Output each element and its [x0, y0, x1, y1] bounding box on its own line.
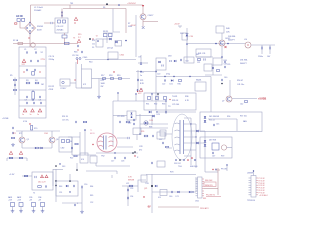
- short stub x227: [226, 164, 227, 171]
- junction dots output rail: [215, 43, 229, 45]
- diode D72: [189, 191, 194, 193]
- label TB1 top: [70, 3, 73, 5]
- svg-text:R16: R16: [74, 52, 77, 54]
- vertical to ground boxB: [81, 188, 83, 210]
- svg-text:C2: C2: [34, 49, 36, 51]
- capacitor C10: [32, 100, 35, 105]
- svg-text:R30: R30: [178, 84, 181, 86]
- comps row above T1: [117, 116, 130, 123]
- label R1 R2 470K: [49, 86, 56, 91]
- choke winding bars upper: [61, 12, 62, 17]
- svg-text:C9: C9: [39, 100, 41, 102]
- node star mark: [113, 71, 114, 72]
- svg-text:C20: C20: [157, 74, 160, 76]
- svg-text:C35: C35: [227, 64, 230, 66]
- svg-text:EE19: EE19: [90, 133, 95, 135]
- standby cluster IC10: [23, 121, 27, 123]
- capacitor C18: [121, 157, 126, 163]
- T1 bottom label: [101, 156, 105, 158]
- PWM cluster box: [127, 111, 136, 125]
- stub ticks above PWM: [117, 92, 159, 101]
- svg-text:R36: R36: [185, 96, 188, 98]
- wire y166: [96, 163, 130, 166]
- thermistor NTC1: [65, 42, 70, 44]
- label R21: [140, 80, 145, 85]
- thermistor circle: [31, 43, 35, 47]
- supervisor U5 body: [251, 176, 256, 198]
- diode D21: [170, 79, 174, 85]
- vertical wire x136 long: [135, 15, 137, 57]
- comps below 5vsb wire: [240, 101, 248, 106]
- capacitor CX1: [44, 22, 55, 24]
- capacitor C22: [162, 79, 166, 85]
- protection right texts2: [185, 96, 190, 102]
- label D30 SBL: [228, 36, 236, 42]
- stubs neg rails: [7, 158, 27, 161]
- svg-text:D25: D25: [150, 120, 153, 122]
- wire rail to choke: [61, 9, 63, 19]
- svg-text:SBL2040: SBL2040: [190, 166, 197, 168]
- PWM top wire: [113, 100, 167, 102]
- capacitor C4: [37, 60, 38, 62]
- connector P2: [17, 196, 23, 213]
- svg-text:C53: C53: [130, 188, 133, 190]
- wire standby mid bus: [16, 130, 60, 132]
- svg-text:235X-ATX: 235X-ATX: [200, 207, 209, 210]
- svg-text:R70: R70: [34, 128, 37, 130]
- marks ps-on node: [212, 169, 216, 170]
- wire y192: [152, 191, 196, 193]
- svg-text:R65: R65: [90, 195, 93, 197]
- fan cap C45: [213, 124, 219, 127]
- svg-text:C42: C42: [240, 104, 243, 106]
- optocoupler PC1: [60, 79, 70, 90]
- capacitor C17: [111, 157, 116, 163]
- capacitor C60: [169, 191, 173, 198]
- svg-text:R10: R10: [89, 62, 92, 64]
- connector P1: [8, 196, 15, 213]
- svg-text:R35 1K: R35 1K: [172, 100, 179, 102]
- ground G2: [80, 210, 84, 213]
- wire y57 lower: [196, 54, 213, 57]
- warning triangle hot: [74, 17, 77, 23]
- vertical wire right x138: [137, 70, 139, 92]
- wire stub y33: [103, 32, 113, 34]
- svg-text:R43: R43: [224, 60, 227, 62]
- label R12 100K: [101, 80, 106, 88]
- comps below protection box: [149, 111, 196, 113]
- svg-text:F1 5A: F1 5A: [13, 39, 19, 42]
- lower box 213: [213, 58, 227, 66]
- svg-text:C47: C47: [212, 156, 215, 158]
- svg-text:1n: 1n: [22, 114, 24, 116]
- wire top bottom-mid: [86, 171, 117, 174]
- label in fan box: [240, 116, 247, 118]
- resistor R17: [101, 75, 106, 79]
- svg-text:1n: 1n: [140, 75, 142, 77]
- monitor lamp circle: [221, 145, 232, 150]
- boxB lower marks: [59, 191, 71, 194]
- warning triangle W1: [9, 151, 12, 154]
- labels right 5vsb: [237, 80, 244, 86]
- svg-text:Q3 Q4: Q3 Q4: [107, 48, 114, 50]
- boxB contents: [59, 180, 75, 188]
- vertical right x211: [210, 77, 212, 113]
- wire left T3 y128: [140, 127, 168, 129]
- capacitor C3: [30, 60, 31, 62]
- tick x112: [111, 175, 113, 178]
- svg-text:TB1: TB1: [70, 3, 73, 5]
- svg-text:R42: R42: [196, 54, 199, 56]
- standby box content: [29, 123, 37, 130]
- dark nodes mid left: [55, 163, 65, 168]
- magamp wire: [122, 183, 138, 187]
- svg-text:R22: R22: [70, 158, 73, 160]
- aux comps right: [197, 58, 205, 64]
- svg-text:D21: D21: [170, 84, 173, 86]
- cap right of boxB: [81, 184, 87, 188]
- red marks bottom: [203, 198, 206, 200]
- wire y203: [62, 203, 82, 206]
- svg-text:R18: R18: [109, 75, 112, 77]
- transformer T3 main: [172, 114, 192, 160]
- svg-text:+5VSB: +5VSB: [258, 97, 266, 101]
- junction top rail 1: [106, 3, 108, 5]
- box IC4: [80, 153, 88, 163]
- wire Q1 emitter: [143, 20, 158, 27]
- wire to ground: [92, 78, 100, 80]
- svg-text:2W: 2W: [101, 86, 104, 88]
- wire AC live to bridge: [20, 22, 24, 29]
- svg-text:D30 SBL: D30 SBL: [228, 36, 236, 38]
- boxA red text: [38, 182, 46, 184]
- snubber cluster below Q2: [72, 45, 83, 57]
- transistor Q1 degauss: [140, 14, 154, 20]
- svg-text:C17: C17: [111, 161, 114, 163]
- box small2: [90, 156, 97, 163]
- wires right of T1: [117, 133, 141, 147]
- label C3 C4 2200p: [49, 56, 56, 61]
- svg-text:R60 10K: R60 10K: [205, 180, 213, 182]
- svg-text:C27: C27: [159, 139, 162, 141]
- label L1 2.2mH: [34, 7, 43, 12]
- labels right boxB: [90, 186, 93, 204]
- svg-text:+310V: +310V: [130, 25, 136, 27]
- label +310VDC: [127, 3, 137, 5]
- wire 5vsb out: [232, 98, 257, 100]
- svg-text:C7: C7: [25, 100, 27, 102]
- long vertical x156: [155, 70, 157, 110]
- fan box texts: [209, 116, 219, 122]
- box right of T1: [133, 128, 141, 140]
- svg-text:C22: C22: [162, 84, 165, 86]
- svg-text:D23: D23: [157, 114, 160, 116]
- svg-text:R59: R59: [221, 156, 224, 158]
- label R6 mid rail: [103, 7, 105, 9]
- box IC6: [158, 190, 167, 200]
- ground standby left: [11, 143, 15, 146]
- svg-text:C18: C18: [121, 161, 124, 163]
- fan wire: [208, 116, 237, 131]
- component below choke: [62, 33, 67, 44]
- svg-text:C15 R20: C15 R20: [117, 116, 124, 118]
- PWM lower wire: [140, 123, 168, 125]
- svg-text:TR2: TR2: [101, 156, 105, 158]
- resistor R19: [117, 75, 122, 79]
- box 7905: [204, 64, 212, 71]
- svg-text:CX 0.22: CX 0.22: [57, 26, 64, 28]
- wire neg rails: [7, 157, 27, 159]
- svg-text:C21: C21: [197, 62, 200, 64]
- svg-text:C30: C30: [190, 36, 193, 38]
- warning triangle drive: [73, 38, 81, 43]
- svg-text:+3.3V ADJ: +3.3V ADJ: [259, 194, 268, 197]
- svg-text:C28: C28: [139, 146, 142, 148]
- svg-text:R32: R32: [154, 104, 157, 106]
- connector J1 AC inlet: [16, 15, 25, 21]
- svg-text:L1 2.2mH: L1 2.2mH: [34, 7, 43, 9]
- fuse F1: [15, 23, 17, 24]
- left resistor column: [10, 75, 17, 95]
- label Q3 Q4: [107, 48, 114, 50]
- PWM row wire: [113, 115, 152, 117]
- driver lower box: [108, 52, 124, 59]
- svg-text:C11: C11: [92, 44, 95, 46]
- labels C28: [139, 146, 142, 152]
- red wire -5V: [158, 206, 199, 208]
- wire cluster left of T1: [68, 137, 80, 155]
- svg-text:T2: T2: [96, 36, 98, 38]
- CN1 label: [195, 201, 199, 203]
- PS-ON tick label: [216, 169, 228, 171]
- protection right texts: [169, 96, 179, 106]
- diode D1 cross mark: [142, 26, 145, 29]
- small box left: [141, 175, 147, 182]
- wire y75 right: [205, 74, 222, 76]
- svg-text:R13: R13: [92, 40, 95, 42]
- boxA lower comps: [38, 185, 47, 187]
- svg-text:600V: 600V: [37, 30, 42, 32]
- rectifier labels right: [190, 157, 197, 168]
- svg-text:D45 1N4148: D45 1N4148: [209, 116, 219, 118]
- monitor dual diode: [204, 140, 206, 146]
- driver box: [115, 41, 122, 47]
- resistor R66: [9, 157, 12, 159]
- small box 196 49: [196, 49, 211, 57]
- svg-text:D5: D5: [92, 47, 94, 49]
- aux box1: [156, 58, 166, 70]
- tick into boxB: [69, 174, 71, 181]
- svg-text:C945: C945: [44, 133, 48, 135]
- capacitor C32: [258, 45, 263, 58]
- wire drop to Q1: [142, 5, 144, 14]
- svg-text:IC4: IC4: [81, 159, 84, 161]
- choke L3: [32, 72, 35, 76]
- bridge rectifier BD1: [25, 22, 36, 34]
- choke L4 vertical: [32, 90, 34, 101]
- box corner magamp: [138, 180, 146, 198]
- svg-text:C14: C14: [69, 141, 72, 143]
- drive arrow diode: [103, 38, 112, 40]
- left tiny labels drive: [92, 40, 95, 49]
- svg-text:C54: C54: [130, 196, 133, 198]
- capacitor C1: [24, 49, 28, 54]
- driver diode D6: [115, 41, 117, 43]
- svg-text:R72: R72: [19, 133, 22, 135]
- diode D11: [35, 147, 37, 149]
- T3 left comps: [159, 130, 172, 148]
- wire output rail: [187, 43, 245, 45]
- svg-text:PS ON: PS ON: [221, 169, 228, 171]
- svg-text:TPS3510: TPS3510: [247, 200, 255, 202]
- svg-text:C51: C51: [59, 192, 62, 194]
- U5 pins left: [249, 178, 252, 195]
- feedback comps left: [62, 116, 87, 123]
- wire bridge bottom down: [28, 34, 30, 48]
- red marks Q10: [225, 46, 227, 48]
- svg-text:R26: R26: [141, 131, 144, 133]
- T3 taps right: [184, 118, 205, 156]
- wire bottom bus: [72, 154, 96, 156]
- label BD1 RS205: [37, 26, 44, 32]
- label near x126: [128, 23, 133, 28]
- vertical wires right boxA: [53, 169, 57, 202]
- red label left: [128, 177, 135, 182]
- svg-text:KA431: KA431: [196, 79, 201, 82]
- connector block CN2: [59, 137, 72, 152]
- svg-text:1M: 1M: [41, 84, 44, 86]
- vertical x230: [229, 80, 231, 96]
- wire resistor row: [99, 78, 130, 80]
- wire x213 down: [212, 65, 214, 75]
- inductor L10: [244, 39, 251, 48]
- svg-text:IC10: IC10: [23, 121, 27, 123]
- dots right edge: [134, 151, 139, 159]
- transistor Q2 pair dots: [76, 57, 88, 64]
- EMI box dividers: [19, 66, 46, 106]
- svg-text:1n: 1n: [37, 114, 39, 116]
- red label -5V: [147, 207, 151, 209]
- CN1 pins left: [196, 179, 198, 196]
- diode D80 on tap: [196, 130, 198, 132]
- fan box frame: [200, 112, 262, 132]
- diode D81 on tap: [196, 142, 198, 144]
- svg-text:C52: C52: [90, 202, 93, 204]
- capacitor C11: [39, 100, 42, 105]
- dark node left of cluster: [89, 38, 94, 40]
- svg-text:X2: X2: [41, 52, 43, 54]
- svg-text:-5V: -5V: [147, 207, 151, 209]
- junction taps: [190, 123, 196, 137]
- svg-text:R71: R71: [13, 133, 16, 135]
- monitor small box: [212, 143, 219, 150]
- warning triangle W2: [19, 151, 22, 154]
- capacitor C5: [23, 69, 27, 73]
- wire startup bus: [85, 59, 136, 64]
- junction drive: [125, 40, 127, 42]
- aux box2: [184, 57, 194, 63]
- wire aux lower: [136, 71, 156, 72]
- svg-text:FAN: FAN: [243, 120, 247, 123]
- svg-text:CN1: CN1: [195, 201, 199, 203]
- PWM left vertical: [112, 101, 114, 146]
- main vertical bottom: [151, 174, 153, 213]
- label F1 5A: [13, 39, 19, 42]
- label 1M: [41, 84, 44, 86]
- wire L10 to caps: [251, 44, 275, 46]
- svg-text:R70: R70: [170, 172, 173, 174]
- U5 bottom label: [247, 200, 255, 202]
- wire startup left vertical: [75, 62, 77, 88]
- boxA contents caps: [35, 175, 48, 178]
- resistor R18: [109, 75, 114, 79]
- svg-text:+310V: +310V: [174, 24, 180, 26]
- ceramic cap Y2: [30, 109, 35, 116]
- wire x140 vertical: [139, 114, 141, 134]
- svg-text:C3 C4: C3 C4: [49, 56, 56, 58]
- vertical wire x126: [125, 9, 127, 34]
- box right of D10: [182, 33, 193, 40]
- svg-text:1n: 1n: [30, 114, 32, 116]
- svg-text:R4: R4: [35, 80, 37, 82]
- svg-text:C8: C8: [32, 100, 34, 102]
- svg-text:Q5: Q5: [27, 139, 29, 141]
- wire remote: [204, 188, 218, 190]
- capacitor C20: [180, 59, 181, 61]
- svg-text:T5: T5: [33, 193, 35, 195]
- wire y174: [146, 172, 196, 175]
- fan label right: [243, 120, 247, 123]
- svg-text:472: 472: [139, 150, 142, 152]
- capacitor C7: [26, 96, 27, 98]
- svg-text:C45: C45: [216, 124, 219, 126]
- svg-text:2200u: 2200u: [258, 56, 263, 58]
- resistor R22: [70, 155, 77, 159]
- svg-text:470p: 470p: [166, 74, 170, 76]
- wire second top rail: [63, 8, 126, 10]
- protection labels: [146, 104, 165, 106]
- resistor R44: [216, 70, 219, 72]
- ground G1: [97, 79, 101, 99]
- svg-text:+3.3V: +3.3V: [9, 174, 15, 176]
- svg-text:SENSE: SENSE: [128, 180, 135, 182]
- svg-text:R5: R5: [10, 75, 12, 77]
- capacitor C2: [34, 49, 37, 54]
- transistor Q10: [219, 33, 230, 46]
- sense box A: [32, 172, 53, 190]
- svg-text:R31: R31: [146, 104, 149, 106]
- U5 top stub: [253, 170, 254, 175]
- red label row2: [206, 195, 221, 197]
- wire opto out: [70, 79, 76, 83]
- svg-text:+5VSB: +5VSB: [2, 118, 9, 120]
- svg-text:470K: 470K: [49, 89, 54, 91]
- rail tie vertical: [69, 5, 71, 9]
- label +5VSB: [258, 97, 266, 101]
- wire y153 right: [96, 152, 138, 154]
- comps lower left T3: [151, 161, 165, 167]
- svg-text:VZ1: VZ1: [22, 64, 25, 66]
- svg-text:CN2: CN2: [61, 148, 65, 150]
- svg-text:C1: C1: [24, 49, 26, 51]
- remote red box: [204, 182, 216, 187]
- label 275V: [41, 59, 46, 61]
- svg-text:C50: C50: [84, 184, 87, 186]
- flag +310V: [174, 24, 182, 29]
- capacitor C40: [221, 77, 227, 84]
- svg-text:R21: R21: [140, 80, 143, 82]
- snubber R26 C28: [141, 131, 165, 139]
